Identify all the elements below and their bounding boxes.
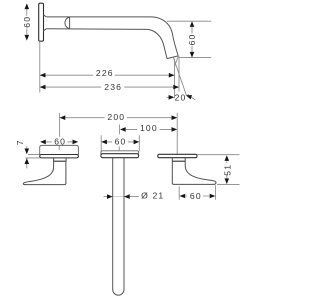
dimension 100 <box>119 125 171 135</box>
short diagonal at outlet corner <box>175 56 179 66</box>
extension line from outlet outer corner <box>178 56 180 91</box>
svg-text:200: 200 <box>107 112 125 122</box>
connector ring on spout <box>65 17 70 29</box>
spout inner curve <box>148 29 167 58</box>
svg-text:20°: 20° <box>175 93 191 103</box>
right handle joint line <box>172 160 185 162</box>
wall plate escutcheon (side view) <box>39 3 44 41</box>
dimension 60 (right handle lever) <box>179 185 215 200</box>
svg-text:60: 60 <box>190 191 202 201</box>
spout escutcheon front slab <box>101 154 139 158</box>
spout pipe (plan) <box>113 158 124 295</box>
svg-text:7: 7 <box>15 139 25 145</box>
right handle lever <box>172 161 216 184</box>
dimension dia 21 <box>104 196 108 198</box>
right handle stem <box>172 158 185 162</box>
wall line right <box>197 154 240 156</box>
spout tube bottom edge <box>46 28 148 31</box>
dimension 51 <box>217 161 240 184</box>
spout flare cone at plate <box>43 15 46 31</box>
dimension 60 (spout escutcheon) <box>101 135 139 151</box>
svg-text:236: 236 <box>104 82 122 92</box>
dimension 7 (escutcheon projection) <box>26 146 40 168</box>
svg-text:51: 51 <box>223 164 233 176</box>
dimension 60 right (spout drop) <box>167 21 211 57</box>
spout outer curve <box>151 17 178 56</box>
dimension 200 <box>60 113 178 154</box>
spout tube top edge <box>46 16 151 18</box>
spout centre tick <box>118 147 120 151</box>
left handle escutcheon front slab <box>40 155 79 158</box>
20 degree direction line <box>173 57 186 95</box>
svg-text:60: 60 <box>54 136 66 146</box>
svg-text:60: 60 <box>22 16 32 28</box>
spout escutcheon disc face (plan) <box>101 151 139 155</box>
spout outlet face <box>167 56 178 59</box>
left handle centre tick <box>58 146 60 150</box>
svg-text:Ø 21: Ø 21 <box>141 191 164 201</box>
angle 20 deg annotation <box>167 96 169 98</box>
right handle escutcheon (plan) <box>158 154 197 157</box>
dimension 236 <box>40 86 179 88</box>
svg-text:226: 226 <box>96 68 114 78</box>
extension line from outlet centre <box>174 59 176 99</box>
dimension 60 (left handle escutcheon) <box>46 141 72 143</box>
extension line from plate bottom <box>39 41 41 92</box>
dimension 60 left (plate diameter) <box>26 9 28 35</box>
left handle stem <box>54 158 67 161</box>
left handle lever <box>23 161 66 184</box>
left handle escutcheon disc face (plan) <box>40 145 79 155</box>
svg-text:60: 60 <box>115 136 127 146</box>
left handle joint line <box>53 160 66 162</box>
svg-text:60: 60 <box>187 34 197 46</box>
dimension 226 <box>40 74 175 76</box>
svg-text:100: 100 <box>140 123 158 133</box>
